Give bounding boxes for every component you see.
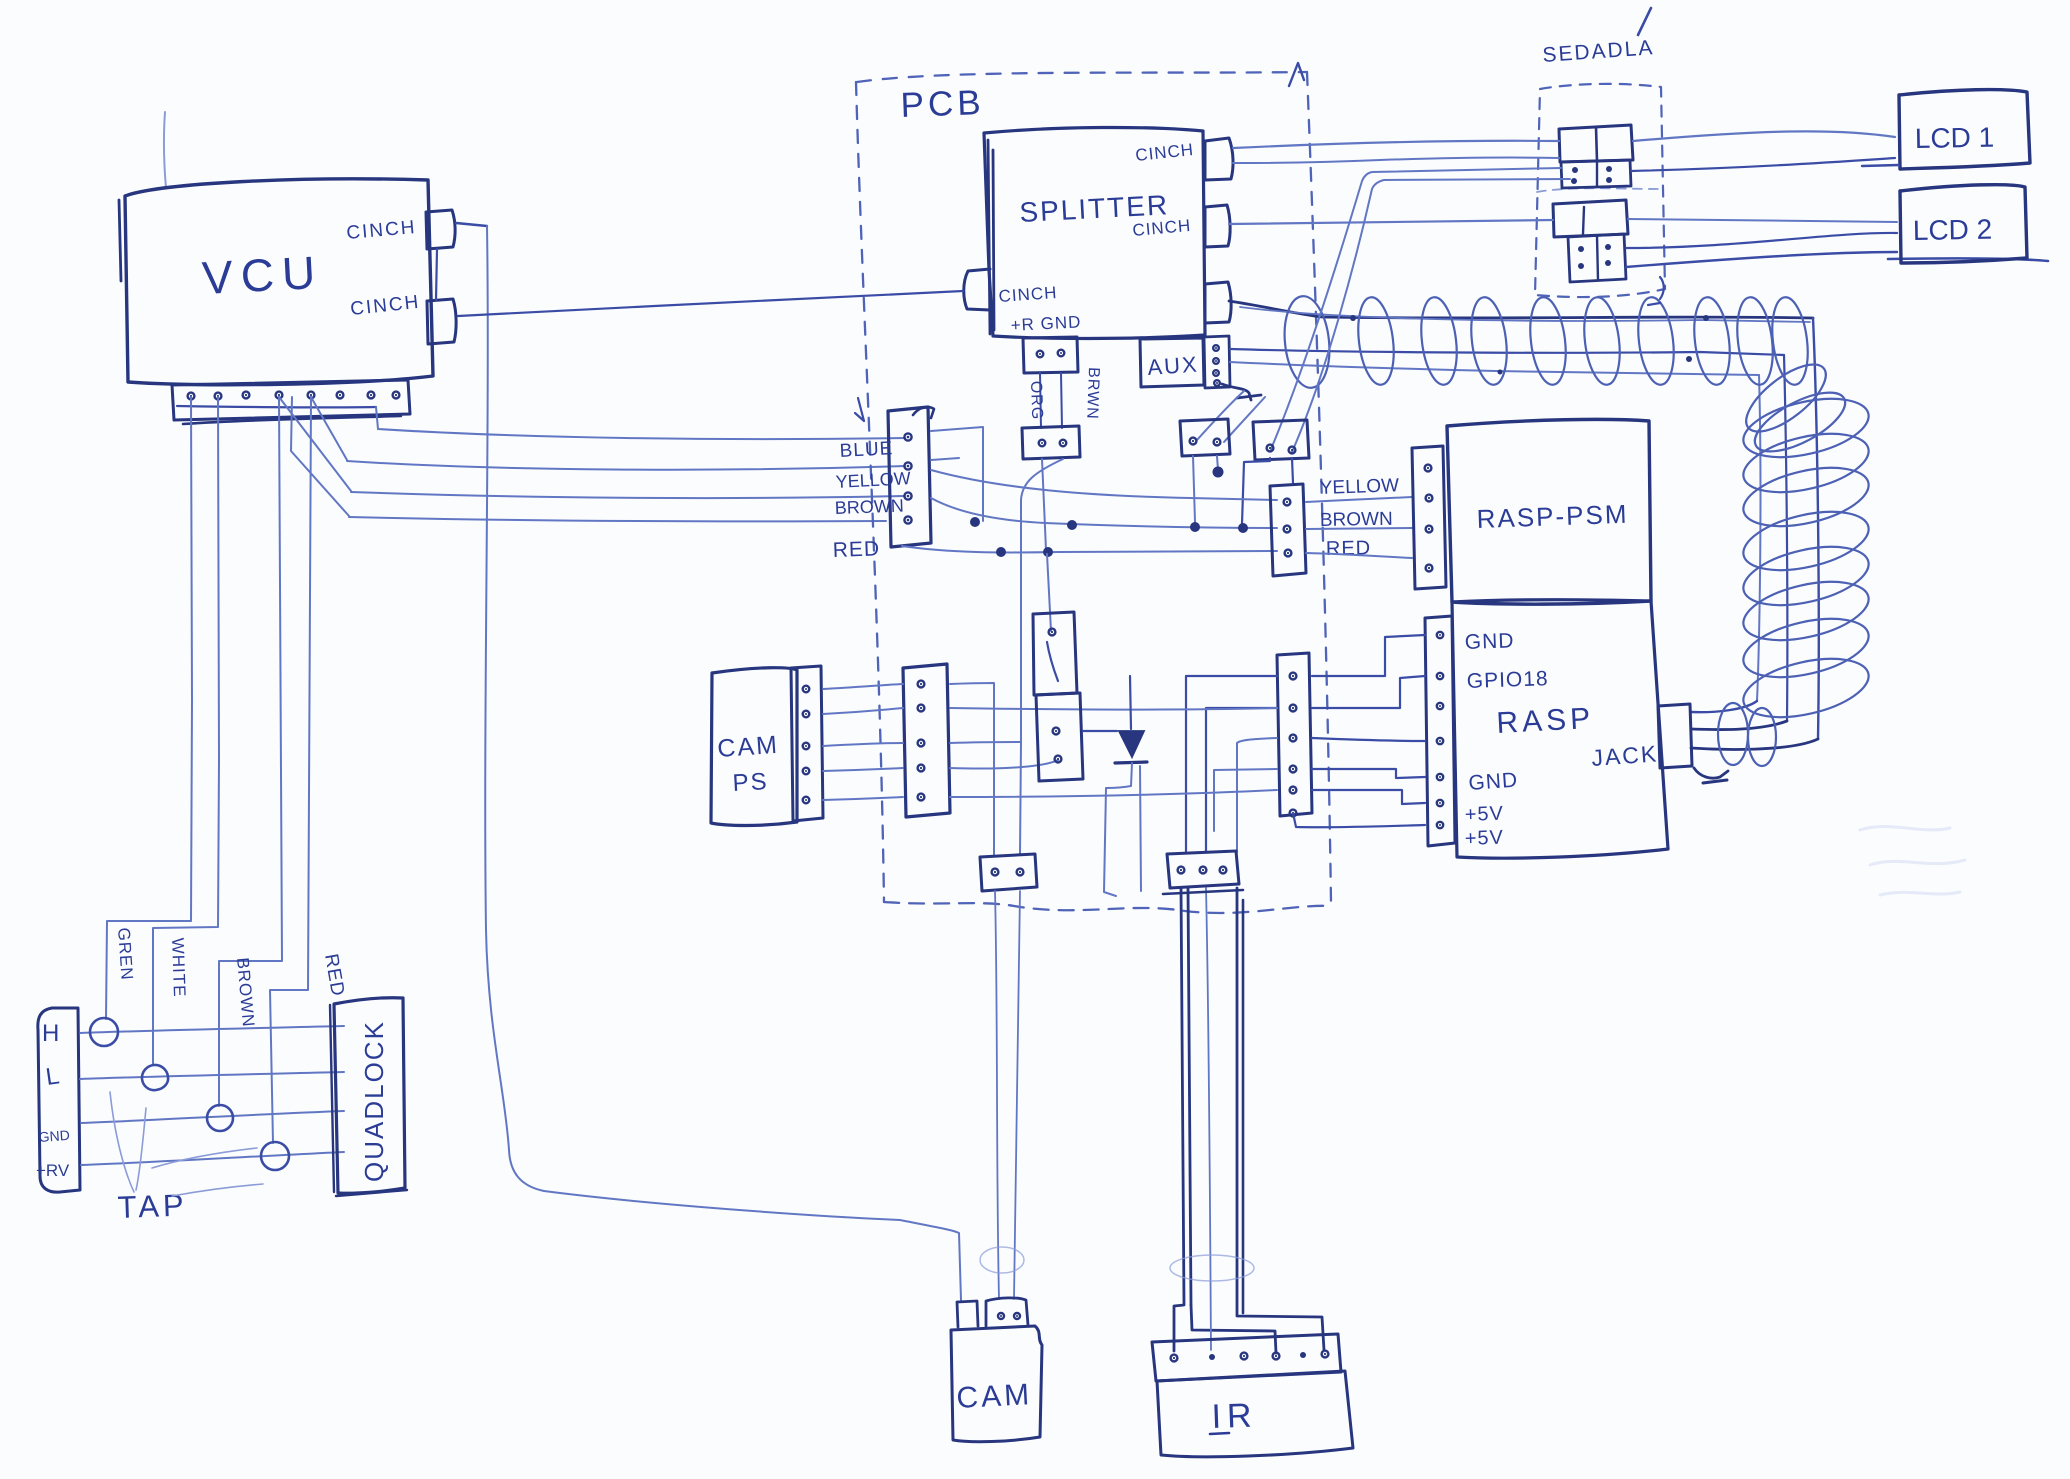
wire H (80, 1026, 344, 1033)
wire strip pin4 step down (1214, 769, 1277, 831)
wire 2pinA pin2 down (1217, 456, 1218, 470)
QUADLOCK box doubled edges (330, 1005, 407, 1196)
tap circle green (90, 1018, 118, 1046)
cinch connector VCU-1 (426, 210, 455, 249)
wire seat2 to LCD2 c (1626, 252, 1897, 267)
wire splitter to seat1 (1233, 141, 1559, 148)
jack hook dash (1703, 780, 1727, 783)
RASP pins (1437, 632, 1443, 638)
PCB arrow mark left (855, 398, 864, 421)
svg-text:+5V: +5V (1464, 803, 1504, 826)
wire GND (81, 1111, 344, 1123)
svg-text:YELLOW: YELLOW (835, 468, 911, 492)
SEDADLA slash (1638, 8, 1651, 35)
svg-text:RED: RED (832, 537, 880, 562)
wire seat1 to LCD1 b (1631, 158, 1895, 171)
wire +RV (81, 1152, 344, 1165)
wire IR bundle mid light (1206, 888, 1211, 1350)
coiled cable horizontal loops (1280, 294, 1333, 390)
wire short diag aux a (1197, 391, 1244, 440)
wire bus under VCU header (177, 406, 376, 407)
wire AUX hook (1222, 384, 1251, 400)
connector 3pin strip (1270, 484, 1306, 576)
svg-text:WHITE: WHITE (168, 937, 189, 997)
svg-text:GND: GND (1468, 769, 1519, 795)
IR sketch ellipse (1170, 1255, 1254, 1281)
PCB dashed right edge (1307, 72, 1331, 902)
wire lcd1 lower left (1233, 158, 1559, 163)
wire L (80, 1072, 344, 1079)
IR strip pins (1171, 1355, 1178, 1362)
svg-text:RASP: RASP (1496, 702, 1595, 740)
wire brown run right (931, 498, 1277, 528)
wire coil mid to jack (1691, 721, 1787, 730)
RASP-PSM pin strip (1412, 446, 1446, 589)
ink dot coil 4 (1498, 370, 1503, 375)
wire YELLOW run (347, 461, 905, 470)
wire mid pin3 right (950, 742, 1021, 855)
jack ground hook (1694, 768, 1728, 778)
wire gnd step (1312, 635, 1425, 676)
CAM tab pins (998, 1313, 1004, 1319)
VCU box left edge doubled (119, 200, 121, 281)
svg-text:PS: PS (732, 768, 769, 797)
wire gpio18 step (1312, 676, 1425, 708)
connector switch upper (1033, 612, 1077, 695)
wire BROWN run (351, 492, 905, 498)
junction dot red 2 (1043, 547, 1053, 557)
junction dot yellow run (1213, 467, 1224, 478)
svg-text:H: H (42, 1020, 59, 1047)
wire 2pinB pin2 down (1292, 458, 1293, 483)
seat pin box 2 divider (1597, 236, 1598, 280)
switch pin top (1049, 629, 1056, 636)
wire seat1 to LCD1 a (1633, 131, 1895, 141)
PCB dashed top edge (857, 72, 1307, 82)
bottom 3pin underline (1163, 890, 1243, 894)
seat connector 2 inner stroke (1583, 207, 1584, 234)
wire IR bundle right b (1242, 900, 1245, 1313)
wire brown to rasp-psm (1306, 528, 1412, 529)
tap sketch stroke 2 (136, 1108, 146, 1190)
pins 2pin under splitter (1037, 351, 1044, 358)
svg-text:BLUE: BLUE (839, 438, 894, 462)
PCB right strip pins (1290, 673, 1297, 680)
coil corner loop a (1736, 353, 1836, 444)
svg-text:PCB: PCB (900, 83, 985, 125)
svg-text:RED: RED (1326, 537, 1372, 560)
svg-text:LCD 1: LCD 1 (1915, 122, 1995, 154)
AUX pin strip (1204, 336, 1230, 388)
strip top hook (913, 407, 934, 418)
connector strip BLUE..RED (888, 407, 931, 547)
ink dot coil 1 (1350, 315, 1356, 321)
QUADLOCK box (334, 998, 405, 1194)
wire LCD2 bottom overshoot (1888, 258, 2048, 261)
wire mid pin4 right (950, 760, 1058, 769)
wire red descent (270, 397, 311, 1143)
wire camps 2 (823, 708, 903, 714)
wire camps 3 (823, 743, 903, 746)
connector 2pin ORG/BRWN (1022, 426, 1080, 459)
bottom 3pin strip (1167, 851, 1239, 888)
diode D1 (1119, 731, 1144, 757)
wire yellow diagonal (311, 397, 347, 460)
svg-text:+5V: +5V (1464, 827, 1504, 850)
wire blue stub (931, 458, 959, 460)
PCB hook top right (1289, 63, 1304, 86)
junction dot brown 1 (970, 517, 980, 527)
seat pin box 1 (1561, 160, 1631, 188)
connector strip PCB right (1277, 653, 1312, 816)
RASP-PSM pins (1425, 465, 1432, 472)
wire cam feed 1 (995, 891, 999, 1299)
wire coil top to jack (1691, 739, 1818, 749)
pins 2pin B (1267, 445, 1274, 452)
LCD1 bottom-left wire stub (1862, 165, 1899, 166)
VCU pin header (172, 380, 410, 420)
connector cam feed (980, 854, 1037, 891)
wire +5v step (1312, 790, 1425, 804)
wire cinch1 to cinch2 (436, 249, 437, 300)
svg-text:CAM: CAM (956, 1378, 1033, 1415)
SEDADLA inner wavy divider (1537, 188, 1660, 192)
junction dot brown 3 (1190, 522, 1200, 532)
wire BRWN vertical (1061, 373, 1062, 428)
wire seat2 to LCD2 a (1628, 219, 1897, 222)
svg-text:TAP: TAP (117, 1188, 188, 1225)
wire switch to diode (1083, 730, 1117, 732)
wire strip to IR left (1186, 676, 1277, 852)
VCU box (125, 179, 433, 385)
wire coil mid corner down (1784, 355, 1787, 721)
wire blue right route (931, 427, 983, 521)
jack loop 1 (1718, 703, 1748, 765)
svg-text:GND: GND (1464, 629, 1514, 654)
wire brown descent (219, 397, 282, 1106)
svg-text:RASP-PSM: RASP-PSM (1476, 499, 1629, 534)
tap sketch stroke 3 (152, 1148, 257, 1168)
junction dot red 1 (996, 547, 1006, 557)
ink dot coil 3 (1686, 356, 1692, 362)
wire AUX hook dash (1237, 395, 1261, 398)
svg-text:GREN: GREN (114, 927, 137, 981)
cinch connector splitter left (964, 269, 990, 310)
RASP box (1452, 600, 1668, 859)
cinch connector VCU-2 (427, 299, 456, 344)
wire ORG vertical (1040, 373, 1041, 428)
3pin strip pins (1284, 499, 1291, 506)
svg-text:CAM: CAM (716, 731, 779, 763)
wire 2pinA pin1 down (1193, 456, 1195, 522)
svg-text:JACK: JACK (1591, 740, 1659, 771)
wire mid pin5 long right (950, 790, 1277, 797)
wire yellow run right (931, 470, 1277, 500)
wire RED run (349, 517, 886, 521)
wire short diag aux b (1224, 397, 1265, 442)
cinch connector splitter right 1 (1205, 138, 1233, 180)
connector 2pin A (1180, 419, 1230, 456)
AUX box (1140, 338, 1204, 387)
tap sketch stroke 4 (172, 1184, 263, 1196)
ink dot coil 2 (1703, 315, 1709, 321)
wire coil low to jack (1691, 701, 1757, 712)
connector H/L/GND/+RV (38, 1008, 80, 1192)
IR top strip (1152, 1334, 1341, 1381)
wire red vertical+diagonal (291, 397, 349, 516)
wire gnd2 step (1312, 769, 1425, 778)
wire BLUE run (378, 429, 905, 439)
wire +5v bottom (1293, 813, 1425, 827)
seat connector 1 divider (1596, 127, 1597, 161)
VCU pin header bottom edge (183, 416, 401, 424)
seat pin box 2 (1568, 234, 1626, 282)
strip pins (904, 433, 911, 440)
wire coil low (1230, 362, 1759, 375)
wire red run right (902, 546, 1277, 552)
wire diode down-left (1104, 763, 1132, 896)
svg-text:AUX: AUX (1147, 351, 1200, 380)
wire brown diagonal (279, 397, 351, 491)
wire white descent (153, 397, 219, 1065)
bracket mark a (1660, 277, 1664, 299)
wire cam feed 2 (1014, 891, 1020, 1299)
LCD2 box (1900, 185, 2027, 263)
AUX pins (1213, 345, 1219, 351)
wire cam long vertical (485, 226, 544, 1191)
wire mid pin2 long right (950, 708, 1277, 710)
RASP pin strip (1425, 616, 1455, 846)
svg-text:YELLOW: YELLOW (1319, 475, 1399, 499)
svg-text:+RV: +RV (36, 1161, 70, 1180)
wire camps 5 (823, 797, 903, 800)
wire yellow to rasp-psm (1306, 497, 1412, 502)
wire coil mid (1230, 349, 1784, 355)
SPLITTER left edge doubled (988, 140, 994, 334)
RASP-PSM box (1447, 419, 1651, 604)
SEDADLA dashed box (1535, 84, 1665, 297)
wire IR bundle right a (1237, 888, 1324, 1350)
tap sketch stroke 1 (110, 1092, 134, 1192)
svg-text:ORG: ORG (1027, 381, 1045, 421)
wire org down to junction (1042, 459, 1046, 550)
wire coil top corner down (1813, 318, 1819, 739)
wire cam horizontal (544, 1191, 961, 1300)
connector switch lower (1036, 693, 1083, 781)
svg-text:BRWN: BRWN (1083, 367, 1102, 420)
mid strip pins (918, 681, 925, 688)
svg-text:IR: IR (1211, 1396, 1258, 1436)
wire camps 4 (823, 768, 903, 771)
cinch connector splitter right 3 (1205, 282, 1231, 323)
wire mid pin1 right+down (950, 683, 994, 855)
switch lever (1047, 642, 1058, 681)
VCU header pins (188, 393, 195, 400)
svg-text:GPIO18: GPIO18 (1466, 667, 1549, 693)
wire strip to IR mid (1206, 708, 1277, 852)
IR label underline (1210, 1433, 1229, 1434)
switch lower pins (1053, 728, 1060, 735)
seat pin box 1 pins (1572, 167, 1578, 173)
diode feed vertical (1130, 676, 1131, 729)
cam sketch ellipse (980, 1247, 1024, 1273)
wire splitter to seat2 (1229, 220, 1553, 224)
wire green descent (106, 397, 192, 1019)
wire pin3 to rasp (1312, 738, 1425, 741)
svg-text:QUADLOCK: QUADLOCK (359, 1020, 389, 1182)
wire IR bundle left a (1174, 888, 1184, 1351)
seat connector 1 (1559, 125, 1633, 162)
CAM tab left (957, 1301, 978, 1327)
tap circle brown (207, 1105, 233, 1131)
wire diagonal pair1 b (1292, 179, 1570, 452)
seat pin box 1 divider (1596, 161, 1598, 187)
svg-text:LCD 2: LCD 2 (1913, 214, 1993, 246)
wire camps 1 (823, 684, 903, 689)
tap circle white (142, 1065, 168, 1090)
CAM PS pin strip (791, 666, 823, 821)
diode bar (1115, 762, 1147, 763)
wire IR bundle left to pin4 (1191, 1305, 1276, 1353)
IR box (1157, 1371, 1353, 1457)
SPLITTER box (984, 127, 1205, 338)
seat pin box 2 pins (1578, 246, 1584, 252)
wire below diode vertical (1140, 766, 1141, 891)
junction dot brown 4 (1238, 523, 1248, 533)
wire brwn down long (1021, 459, 1063, 742)
JACK connector (1658, 704, 1692, 768)
connector 2pin under splitter (1023, 337, 1078, 373)
wire vcu cinch2 to splitter (458, 291, 963, 316)
wire seat2 to LCD2 b (1626, 233, 1897, 248)
wire coil top (dark) (1229, 301, 1813, 318)
CAM PS pins (803, 686, 810, 693)
tap circle red (261, 1142, 289, 1170)
wire coil low corner down (1757, 375, 1760, 701)
wire 2pinB pin1 down (1242, 458, 1270, 524)
seat connector 2 (1553, 200, 1628, 237)
svg-text:GND: GND (38, 1127, 70, 1145)
wire coil top doubled (1240, 307, 1810, 322)
CAM box (951, 1326, 1042, 1442)
wire strip to IR third (1237, 738, 1277, 852)
wire IR bundle left b (1188, 888, 1191, 1305)
connector strip mid (cam) (903, 664, 950, 817)
pins ORG/BRWN (1039, 440, 1046, 447)
svg-text:+R GND: +R GND (1010, 312, 1082, 335)
jack loop 2 (1748, 708, 1776, 766)
svg-text:BROWN: BROWN (834, 496, 904, 518)
CAM tab right (986, 1298, 1028, 1326)
bottom 3pin pins (1178, 867, 1185, 874)
coiled cable vertical loops (1738, 388, 1874, 467)
cinch connector splitter right 2 (1205, 205, 1230, 247)
wire diagonal pair1 a (1271, 168, 1561, 449)
wire blue step (376, 407, 378, 429)
junction dot brown 2 (1067, 520, 1077, 530)
wire cinch1 to cam (top) (456, 223, 487, 226)
faint paper mark top-left (164, 112, 166, 188)
ghost scribble (1860, 826, 1965, 895)
connector 2pin B (1253, 420, 1309, 460)
pins 2pin A (1190, 438, 1197, 445)
LCD1 box (1899, 90, 2030, 169)
svg-text:VCU: VCU (201, 246, 325, 304)
CAM PS box (711, 668, 797, 826)
coil corner loop b (1746, 381, 1853, 463)
wire junction to switch (1047, 554, 1051, 631)
PCB dashed left edge (856, 82, 884, 902)
wire red to rasp-psm (1306, 553, 1412, 558)
bracket mark b (1648, 303, 1660, 305)
cam feed pins (992, 869, 999, 876)
PCB dashed bottom edge (884, 902, 1332, 913)
